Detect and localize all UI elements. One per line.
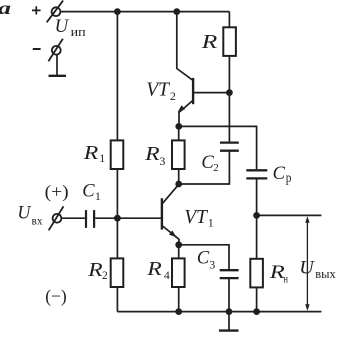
- svg-text:вых: вых: [315, 266, 336, 281]
- label R_1: [83, 142, 106, 165]
- node top rail / R1 column: [114, 8, 121, 15]
- wire base node to VT1 base: [117, 217, 161, 219]
- svg-text:R: R: [201, 31, 218, 53]
- node bottom rail / R4: [175, 308, 182, 315]
- resistor R4: [172, 258, 185, 287]
- svg-text:VT: VT: [146, 79, 171, 101]
- svg-text:ип: ип: [71, 24, 86, 39]
- wire R2 to bottom rail: [116, 288, 118, 312]
- svg-text:р: р: [286, 170, 292, 185]
- ground: [219, 312, 239, 331]
- wire C2 bottom to collector node: [179, 151, 230, 184]
- svg-text:1: 1: [95, 189, 101, 203]
- svg-text:R: R: [144, 143, 160, 165]
- svg-text:(+): (+): [45, 181, 69, 201]
- svg-text:R: R: [87, 259, 103, 281]
- wire output top line: [257, 214, 322, 216]
- capacitor C1: [86, 210, 94, 228]
- wire output node to Rn: [256, 215, 258, 258]
- label R_н: [268, 263, 288, 286]
- label R_3: [144, 143, 165, 168]
- transistor VT2: [177, 12, 230, 127]
- label C_1: [82, 181, 101, 203]
- resistor R1: [111, 140, 124, 169]
- node C1 / R1 / R2 / VT1 base: [114, 215, 121, 222]
- wire emitter node to R4: [178, 245, 180, 259]
- capacitor Cp: [246, 170, 267, 178]
- minus sign of supply: [33, 48, 41, 50]
- svg-text:R: R: [146, 258, 162, 280]
- svg-text:a: a: [0, 0, 11, 18]
- capacitor C3: [220, 270, 239, 278]
- wire node to R3: [178, 126, 180, 140]
- wire top rail: [60, 11, 229, 13]
- wire R1 to base node: [116, 170, 118, 218]
- common bar under minus terminal: [49, 55, 67, 76]
- arrow U_вых: [305, 216, 309, 311]
- label C_3: [197, 249, 215, 272]
- node VT1 emitter / R4 / C3: [175, 241, 182, 248]
- wire bottom rail: [117, 311, 321, 313]
- resistor R2: [111, 258, 124, 287]
- svg-text:U: U: [17, 203, 31, 224]
- label U_вх: [17, 203, 42, 228]
- svg-text:C: C: [197, 249, 210, 269]
- wire VT2 emitter node to Cp: [179, 126, 257, 169]
- wire Cp to output node: [256, 178, 258, 215]
- label R_2: [87, 259, 108, 282]
- terminal - of U_ip: [48, 39, 63, 62]
- wire VT2 base node to C2: [228, 93, 230, 142]
- resistor Rн: [250, 259, 263, 288]
- svg-text:2: 2: [102, 270, 108, 282]
- svg-text:н: н: [283, 274, 288, 286]
- svg-text:U: U: [55, 16, 70, 37]
- label VT_2: [146, 79, 176, 103]
- svg-text:3: 3: [159, 154, 165, 168]
- terminal + of U_ip: [47, 1, 63, 23]
- node bottom rail / Rn: [253, 308, 260, 315]
- svg-text:R: R: [83, 142, 99, 164]
- node R3 / C2 / VT1 collector: [175, 181, 182, 188]
- wire top rail into R: [228, 12, 230, 27]
- node Cp / Rn / output: [253, 212, 260, 219]
- node top rail / VT2 collector: [173, 8, 180, 15]
- label U_ип: [55, 16, 86, 39]
- wire input terminal to C1: [62, 217, 85, 219]
- svg-text:1: 1: [208, 216, 214, 230]
- wire R to VT2 base node: [228, 57, 230, 93]
- wire Rn to bottom rail: [256, 288, 258, 311]
- label VT_1: [184, 206, 214, 229]
- label C_р: [273, 164, 292, 185]
- transistor VT1: [162, 184, 179, 244]
- svg-text:4: 4: [164, 270, 170, 282]
- svg-text:2: 2: [170, 89, 176, 103]
- label C_2: [201, 153, 218, 174]
- svg-text:C: C: [82, 181, 95, 201]
- label R_4: [146, 258, 170, 282]
- resistor R3: [172, 140, 185, 169]
- svg-text:вх: вх: [32, 216, 43, 228]
- wire C3 to bottom rail: [228, 278, 230, 312]
- wire base node to R2: [116, 218, 118, 258]
- wire emitter node to C3: [179, 245, 229, 269]
- svg-text:1: 1: [99, 151, 105, 165]
- svg-text:2: 2: [213, 162, 219, 174]
- svg-text:U: U: [299, 258, 315, 279]
- resistor R: [223, 27, 236, 56]
- input terminal: [49, 206, 64, 230]
- svg-text:C: C: [273, 164, 286, 184]
- wire top rail to R1: [116, 12, 118, 141]
- node bottom rail / C3 / ground: [226, 308, 233, 315]
- wire C1 to base node: [95, 217, 117, 219]
- wire R3 to collector node: [178, 170, 180, 184]
- svg-text:VT: VT: [184, 206, 209, 228]
- node VT2 emitter / R3 / Cp wire: [175, 123, 182, 130]
- svg-text:3: 3: [209, 258, 215, 272]
- plus sign of supply: [32, 6, 41, 14]
- svg-text:(−): (−): [45, 286, 67, 307]
- capacitor C2: [220, 143, 239, 151]
- label U_вых: [299, 258, 336, 281]
- wire R4 to bottom rail: [178, 288, 180, 312]
- svg-text:R: R: [268, 263, 284, 283]
- node R / VT2 base / C2: [226, 89, 233, 96]
